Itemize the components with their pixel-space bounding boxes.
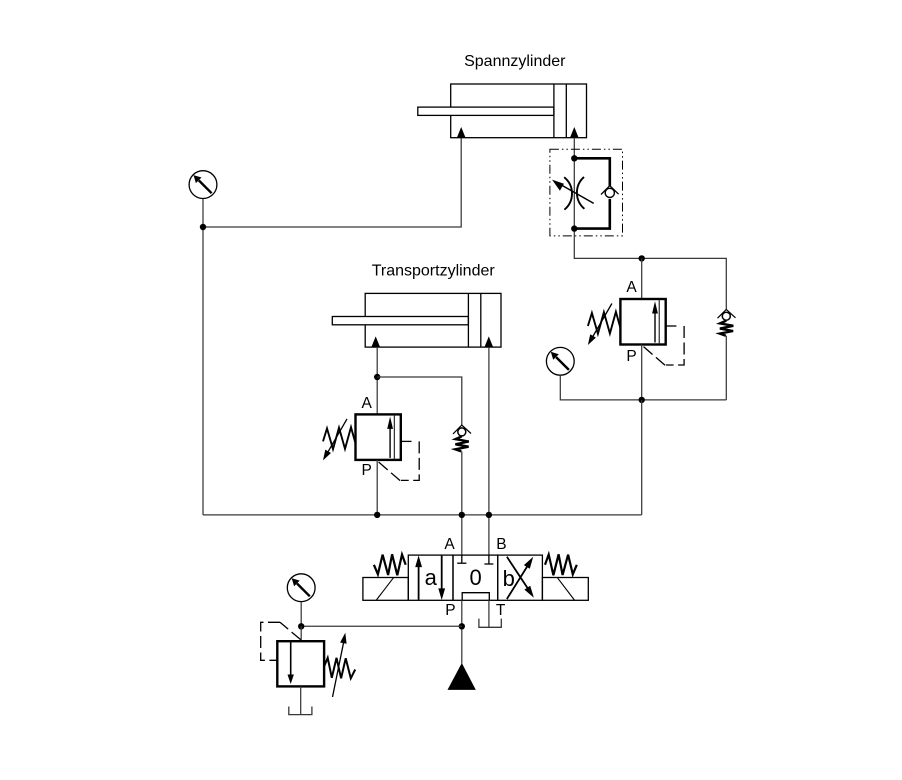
wire: junction down to relief valve bbox=[300, 626, 302, 641]
check valve in bypass bbox=[601, 186, 619, 195]
node: branch junction below left port bbox=[374, 374, 380, 380]
wire: main rail horizontal bbox=[203, 514, 642, 516]
svg-text:P: P bbox=[362, 462, 372, 479]
pressure reducing valve R1 bbox=[323, 414, 419, 481]
wire: CV2 bottom to lower rail bbox=[725, 336, 727, 400]
spring right of valve bbox=[545, 554, 577, 575]
check valve bypass loop bbox=[574, 158, 610, 186]
node: A-line branch junction top right bbox=[639, 255, 645, 261]
svg-text:A: A bbox=[444, 536, 455, 553]
cylinder: Spannzylinder bbox=[418, 84, 587, 138]
svg-text:0: 0 bbox=[469, 565, 481, 590]
wire: branch over to check valve CV1 line bbox=[377, 377, 462, 425]
node: bypass bottom junction bbox=[571, 225, 577, 231]
wire: bottom rail to relief valve bbox=[301, 625, 462, 627]
position 0: blocked A,B and P-T bypass bbox=[457, 555, 493, 600]
wire: Transportzylinder right port down to valve port B bbox=[488, 347, 490, 555]
check valve CV1 (spring loaded) bbox=[453, 425, 471, 451]
spring left of valve bbox=[374, 554, 406, 575]
wire: R1 P-line to main rail bbox=[376, 460, 378, 515]
svg-text:A: A bbox=[362, 395, 373, 412]
position b: crossed arrows bbox=[503, 557, 534, 599]
node: P junction bbox=[459, 623, 465, 629]
wire: Spannzylinder left port down and left to gauge branch bbox=[203, 138, 461, 227]
flow control valve assembly frame (dash-dot) bbox=[550, 149, 623, 236]
node: gauge G1 branch junction bbox=[200, 224, 206, 230]
tank at T bbox=[479, 619, 501, 628]
wire: R2 P-line down bbox=[641, 345, 643, 400]
node: rail junction at R1 P bbox=[374, 512, 380, 518]
svg-text:B: B bbox=[496, 536, 506, 553]
throttle (adjustable) bbox=[552, 177, 594, 210]
wire: relief valve to tank bbox=[300, 686, 302, 714]
wire: CV1 bottom down to valve port A bbox=[461, 451, 463, 555]
wire: left trunk down from gauge branch bbox=[202, 227, 204, 515]
tank at relief valve bbox=[289, 707, 312, 715]
svg-text:A: A bbox=[626, 279, 637, 296]
wire: gauge G1 stub bbox=[202, 199, 204, 228]
check valve CV2 (spring loaded) bbox=[718, 309, 736, 335]
pump pressure source triangle bbox=[448, 663, 476, 690]
pressure reducing valve R2 bbox=[588, 299, 684, 366]
node: bypass top junction bbox=[571, 155, 577, 161]
directional valve 4/3 body bbox=[408, 555, 542, 600]
cylinder: Transportzylinder bbox=[332, 293, 501, 347]
svg-text:Transportzylinder: Transportzylinder bbox=[372, 263, 496, 280]
wire: Transportzylinder left port down to R1 bbox=[376, 347, 378, 414]
svg-text:b: b bbox=[503, 566, 515, 591]
node: rail junction at valve A line bbox=[459, 512, 465, 518]
pressure relief valve R3 bbox=[277, 633, 355, 697]
svg-text:T: T bbox=[496, 602, 506, 619]
wire: G3 stub to junction bbox=[300, 602, 302, 627]
node: R2 P junction bbox=[639, 397, 645, 403]
solenoid left bbox=[363, 578, 408, 601]
wire: valve P down to pump bbox=[461, 600, 463, 663]
wire: Spannzylinder right port through flow control and over to check valve bbox=[574, 138, 726, 310]
solenoid right bbox=[542, 578, 588, 601]
svg-text:a: a bbox=[425, 565, 438, 590]
wire: down from R2 P junction to main rail bbox=[641, 400, 643, 515]
wire: G2 stub and lower rail to CV2 bbox=[560, 375, 726, 400]
node: rail junction at valve B line bbox=[486, 512, 492, 518]
position a: parallel arrows bbox=[415, 555, 445, 600]
node: relief valve junction bbox=[298, 623, 304, 629]
pressure gauge G3 bbox=[287, 574, 315, 602]
wire: valve T down to tank bbox=[488, 600, 490, 627]
svg-text:P: P bbox=[445, 602, 455, 619]
pilot line of relief valve (dashed) bbox=[261, 622, 301, 660]
wire: reducing valve R2 A-line bbox=[641, 258, 643, 299]
pressure gauge G1 bbox=[189, 171, 217, 199]
svg-text:P: P bbox=[626, 348, 636, 365]
svg-text:Spannzylinder: Spannzylinder bbox=[464, 53, 566, 70]
pressure gauge G2 bbox=[546, 347, 574, 375]
